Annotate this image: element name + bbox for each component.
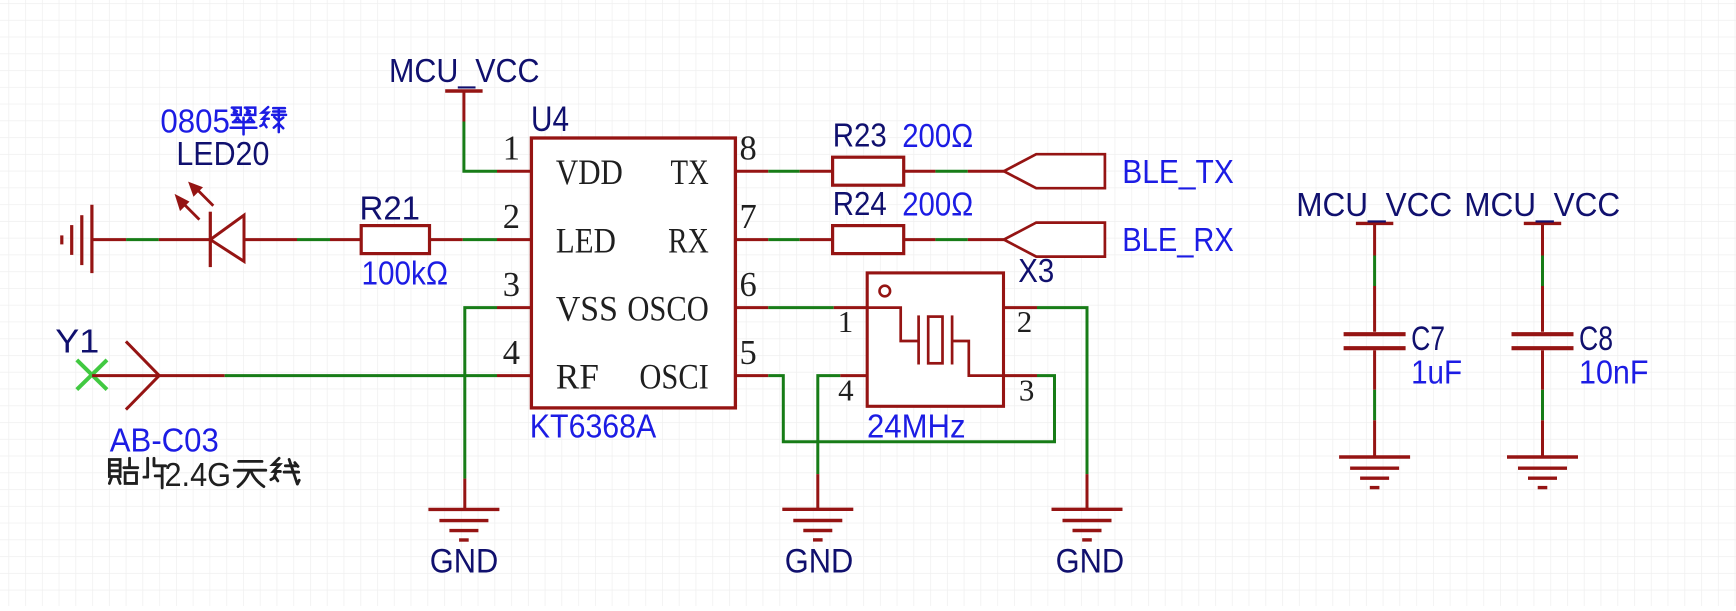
svg-text:R23: R23 (833, 117, 887, 154)
ground (C7) (1339, 457, 1410, 488)
U4 pin number 8 (740, 130, 757, 168)
ground (C8) (1507, 457, 1578, 488)
led LED20 triangle (210, 215, 244, 261)
U4 pin 6 stub (735, 306, 768, 309)
svg-text:8: 8 (740, 130, 757, 168)
svg-text:1: 1 (503, 130, 520, 168)
capacitor C7 plates (1344, 334, 1406, 348)
net label GND (middle) (785, 542, 854, 580)
svg-text:0805: 0805 (160, 103, 230, 140)
crystal X3 pin number 4 (838, 373, 854, 408)
U4 pin 8 stub (735, 170, 768, 173)
wire U4 pin5 OSCI to X3 pin3 (768, 376, 1054, 442)
U4 pin name OSCO (627, 289, 708, 329)
wire R24 to port (904, 238, 1004, 241)
value 100kΩ (362, 255, 449, 292)
U4 pin number 5 (740, 334, 757, 372)
svg-text:2: 2 (503, 198, 520, 236)
svg-text:BLE_TX: BLE_TX (1122, 153, 1234, 190)
svg-text:RF: RF (556, 357, 599, 397)
svg-text:R24: R24 (833, 185, 887, 222)
ground GND (middle) (782, 509, 853, 540)
net label MCU_VCC (top) (389, 52, 540, 89)
wire R23 to port (904, 170, 1004, 173)
wire C8 to ground (1541, 350, 1544, 457)
svg-text:C8: C8 (1579, 320, 1613, 358)
designator R24 (833, 185, 887, 222)
wire MCU_VCC to C8 (1541, 256, 1544, 332)
designator X3 (1018, 252, 1054, 289)
wire antenna to U4 pin4 RF (225, 374, 497, 377)
svg-text:2.4G: 2.4G (165, 456, 232, 493)
antenna Y1 symbol (92, 341, 225, 409)
svg-text:6: 6 (740, 266, 757, 304)
U4 pin name RX (668, 221, 709, 261)
crystal X3 left plate (917, 315, 920, 364)
svg-text:1uF: 1uF (1411, 354, 1462, 391)
U4 pin 3 stub (497, 306, 531, 309)
svg-text:1: 1 (838, 304, 854, 339)
ground GND (U4 VSS) (428, 509, 499, 540)
svg-text:LED20: LED20 (176, 135, 269, 172)
svg-text:200Ω: 200Ω (902, 117, 973, 154)
svg-text:OSCO: OSCO (627, 289, 708, 329)
value 24MHz (867, 408, 966, 445)
designator U4 (531, 100, 569, 139)
designator C7 (1411, 320, 1445, 358)
power flag MCU_VCC (C8) (1524, 223, 1561, 255)
resistor R24 body (833, 226, 904, 254)
svg-text:C7: C7 (1411, 320, 1445, 358)
wire U4 to R24 (768, 238, 832, 241)
power flag MCU_VCC (U4 VDD) (445, 91, 482, 122)
crystal X3 pin number 1 (838, 304, 854, 339)
port flag BLE_TX (1004, 154, 1105, 188)
value AB-C03 (110, 422, 219, 459)
svg-text:TX: TX (671, 152, 709, 192)
value 1uF (1411, 354, 1462, 391)
value 200Ω (R23) (902, 117, 973, 154)
power flag MCU_VCC (C7) (1356, 223, 1393, 255)
value 10nF (1579, 354, 1649, 391)
svg-text:10nF: 10nF (1579, 354, 1649, 391)
signal ground (LED cathode) (62, 205, 92, 273)
U4 pin name TX (671, 152, 709, 192)
U4 pin 1 stub (497, 170, 531, 173)
U4 pin number 1 (503, 130, 520, 168)
svg-text:VDD: VDD (556, 152, 623, 192)
U4 pin name RF (556, 357, 599, 397)
svg-text:3: 3 (503, 266, 520, 304)
svg-text:MCU_VCC: MCU_VCC (1464, 186, 1620, 223)
svg-text:VSS: VSS (556, 289, 618, 329)
crystal X3 pin number 3 (1019, 373, 1035, 408)
wire MCU_VCC to U4 pin1 (464, 122, 497, 172)
capacitor C8 plates (1512, 334, 1574, 348)
led LED20 cathode bar (209, 212, 212, 267)
U4 pin number 6 (740, 266, 757, 304)
svg-text:24MHz: 24MHz (867, 408, 966, 445)
resistor R23 body (833, 157, 904, 185)
svg-text:Y1: Y1 (55, 323, 99, 360)
svg-text:GND: GND (430, 542, 499, 580)
net label GND (right) (1056, 542, 1125, 580)
U4 pin 7 stub (735, 238, 768, 241)
svg-text:OSCI: OSCI (639, 357, 708, 397)
designator LED20 (176, 135, 269, 172)
net label BLE_RX (1122, 221, 1234, 258)
svg-text:100kΩ: 100kΩ (362, 255, 449, 292)
wire X3 pin2 to ground (1037, 308, 1087, 510)
svg-text:MCU_VCC: MCU_VCC (389, 52, 540, 89)
net label BLE_TX (1122, 153, 1234, 190)
U4 pin number 4 (503, 334, 520, 372)
svg-text:3: 3 (1019, 373, 1035, 408)
U4 pin name OSCI (639, 357, 708, 397)
svg-text:5: 5 (740, 334, 757, 372)
crystal X3 pin1 dot (880, 286, 891, 297)
wire C7 to ground (1373, 350, 1376, 457)
value KT6368A (530, 408, 657, 445)
crystal X3 right plate (951, 315, 954, 364)
led LED20 emission arrow 1 (188, 182, 213, 206)
crystal X3 pin number 2 (1017, 304, 1033, 339)
U4 pin name LED (556, 221, 616, 261)
U4 pin name VDD (556, 152, 623, 192)
value 0805翠绿 (partly drawn glyphs) (160, 103, 286, 140)
ground GND (right) (1052, 509, 1123, 540)
net label MCU_VCC (C8) (1464, 186, 1620, 223)
U4 pin number 2 (503, 198, 520, 236)
svg-text:4: 4 (503, 334, 520, 372)
svg-text:U4: U4 (531, 100, 569, 139)
antenna feed point X (77, 360, 107, 390)
ic U4 body KT6368A (531, 138, 735, 408)
U4 pin 5 stub (735, 374, 768, 377)
svg-text:2: 2 (1017, 304, 1033, 339)
U4 pin 2 stub (497, 238, 531, 241)
U4 pin 4 stub (497, 374, 531, 377)
wire X3 pin4 to ground (818, 376, 840, 510)
value 200Ω (R24) (902, 185, 973, 222)
wire U4 pin6 OSCO to X3 pin1 (768, 306, 833, 309)
designator R21 (360, 190, 421, 227)
svg-text:LED: LED (556, 221, 616, 261)
U4 pin number 3 (503, 266, 520, 304)
svg-text:7: 7 (740, 198, 757, 236)
svg-text:R21: R21 (360, 190, 421, 227)
svg-text:GND: GND (785, 542, 854, 580)
crystal X3 pin2 stub (1004, 306, 1038, 309)
crystal X3 pin4 stub (840, 374, 867, 377)
designator C8 (1579, 320, 1613, 358)
wire ground to LED (92, 238, 210, 241)
net label GND (left) (430, 542, 499, 580)
description 贴片2.4G天线 (drawn glyphs) (109, 456, 299, 493)
svg-text:MCU_VCC: MCU_VCC (1296, 186, 1452, 223)
wire R21 to U4 pin2 (430, 238, 498, 241)
crystal X3 pin3 stub (1004, 374, 1038, 377)
designator R23 (833, 117, 887, 154)
wire U4 to R23 (768, 170, 832, 173)
port flag BLE_RX (1004, 223, 1105, 257)
led LED20 emission arrow 2 (175, 194, 200, 220)
net label MCU_VCC (C7) (1296, 186, 1452, 223)
svg-text:X3: X3 (1018, 252, 1054, 289)
crystal X3 body (867, 273, 1003, 406)
crystal X3 pin1 stub (834, 306, 868, 309)
U4 pin number 7 (740, 198, 757, 236)
svg-text:GND: GND (1056, 542, 1125, 580)
resistor R21 body (361, 226, 429, 254)
svg-text:4: 4 (838, 373, 854, 408)
svg-text:200Ω: 200Ω (902, 185, 973, 222)
crystal X3 internal right lead (952, 341, 1003, 376)
svg-text:BLE_RX: BLE_RX (1122, 221, 1234, 258)
crystal X3 quartz rect (928, 317, 942, 364)
crystal X3 internal left lead (867, 308, 918, 341)
wire MCU_VCC to C7 (1373, 256, 1376, 332)
svg-text:AB-C03: AB-C03 (110, 422, 219, 459)
wire U4 pin3 VSS to ground (465, 308, 497, 510)
U4 pin name VSS (556, 289, 618, 329)
wire LED to R21 (244, 238, 361, 241)
svg-text:RX: RX (668, 221, 709, 261)
svg-text:KT6368A: KT6368A (530, 408, 657, 445)
designator Y1 (55, 323, 99, 360)
